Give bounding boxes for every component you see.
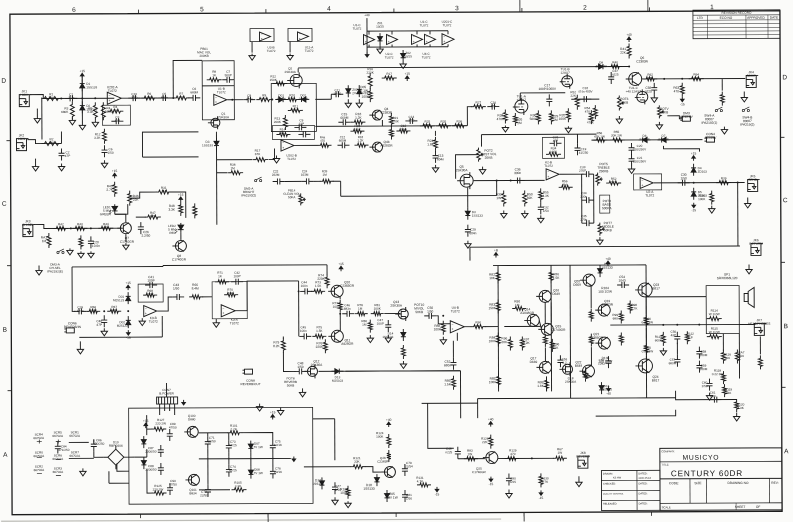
ground below R5 [92, 120, 98, 127]
svg-text:R5222K: R5222K [570, 90, 577, 98]
svg-text:−: − [145, 307, 147, 311]
wire u4b in link [436, 316, 450, 324]
wire psu v h [272, 457, 274, 467]
wire LED2 to Q8 [180, 233, 182, 240]
capacitor C29 604n [465, 225, 471, 237]
wire r79 down [283, 352, 295, 371]
label R12 150K [270, 75, 278, 83]
power -15 r131 [435, 487, 440, 497]
wire u4b to amp [485, 326, 498, 328]
label R50 82K [527, 192, 534, 200]
svg-text:-15: -15 [691, 208, 696, 212]
transistor Q20 D669 [580, 274, 595, 286]
label C86 470/250 [93, 438, 104, 446]
wire y418 row [313, 418, 335, 420]
svg-text:C611/50: C611/50 [710, 391, 716, 399]
fet Q18 2SK30A [559, 362, 572, 376]
svg-text:+15: +15 [178, 193, 184, 197]
capacitor C77 1/50 [332, 482, 338, 494]
ground psu a [256, 404, 262, 412]
label C24 103M [301, 169, 309, 176]
input jack JK3 CH-SEL [22, 219, 35, 236]
wire ac in vertical [108, 471, 110, 483]
svg-text:R4a470: R4a470 [320, 135, 326, 142]
zone tick bottom [651, 512, 653, 516]
ground K3-A [213, 319, 219, 328]
wire reverb loop bottom [79, 336, 162, 338]
label Z05 10V 1W [386, 492, 397, 500]
transistor Q11 A928GR [328, 330, 343, 342]
transistor Q17 D669 [536, 361, 551, 373]
transistor Q8 C1740GR [172, 240, 186, 251]
label R127 220 2W [155, 418, 166, 426]
capacitor C84 471/250 [55, 441, 61, 453]
label R123 100K [340, 487, 348, 495]
resistor R39 1M [320, 179, 334, 183]
node clip box input [271, 99, 273, 101]
resistor R7 33K [173, 92, 189, 100]
label C20 220/250V [633, 144, 647, 152]
svg-text:+15: +15 [691, 151, 697, 155]
resistor R27b 22K [471, 100, 486, 108]
svg-text:DRAWING NO: DRAWING NO [727, 481, 748, 485]
wire TU1-A plate riser [519, 93, 521, 100]
wire opamp riser [368, 31, 370, 47]
svg-text:R1204.3K: R1204.3K [737, 402, 745, 410]
wire x477 drop [477, 399, 479, 418]
label R30 500K [530, 113, 538, 121]
label R14 1K [280, 127, 286, 134]
svg-text:C44100n: C44100n [301, 280, 308, 288]
power -15 r130 [539, 490, 544, 500]
label U1-C TL072 b [420, 20, 429, 28]
label R131 4.7K [416, 476, 424, 484]
speaker SP1 cone [744, 287, 754, 307]
node k3b in [103, 310, 105, 312]
label D3 1SS133 [202, 140, 213, 148]
label R97 8.2K [523, 337, 530, 345]
svg-text:−: − [451, 322, 453, 326]
resistor R130 4.7K [539, 473, 543, 487]
label Q19 C2383R [601, 299, 613, 307]
wire C19 drop [576, 134, 578, 143]
wire bias drop [334, 419, 336, 460]
wire supply rail y264 [163, 264, 327, 267]
svg-text:+: + [641, 183, 643, 187]
wire dm3 link [667, 116, 682, 119]
capacitor C49 n225 [455, 447, 461, 459]
wire box lower-left corner [142, 132, 198, 157]
jack JK6 RETURN [749, 238, 763, 255]
ground below C13 [432, 165, 438, 173]
fet Q13 2SK30A [395, 307, 408, 321]
label R20 100K [559, 113, 567, 121]
svg-text:−: − [641, 178, 643, 182]
pot box POT3 [600, 195, 610, 213]
wire Q7 emitter down [125, 234, 127, 242]
terminal SCR4 66702A [33, 433, 45, 441]
jack JK4 80007 [746, 70, 758, 87]
svg-text:R54470: R54470 [584, 106, 590, 114]
ground JK8 [576, 476, 582, 487]
svg-text:REV:: REV: [771, 481, 778, 485]
power +15 rail mark [404, 72, 410, 81]
zone tick top [648, 7, 650, 11]
label C49 n225 [445, 447, 452, 455]
ground K3-B plus [139, 318, 145, 326]
ground below R3 [69, 117, 75, 125]
ground JK4 [741, 91, 747, 102]
ground below R38s [709, 206, 715, 214]
svg-text:JK2LOW: JK2LOW [18, 133, 25, 141]
svg-text:POTV50KB: POTV50KB [660, 107, 670, 115]
resistor R39s 2.2K [716, 176, 731, 184]
label R56 47K 1W [594, 131, 605, 139]
wire diode clamp vertical [81, 73, 83, 125]
terminal SCR3 66702A [53, 466, 65, 474]
terminal SCR6 66702A [53, 453, 65, 461]
label R112 6.8 [687, 332, 694, 340]
label C87 2200/50 [145, 446, 156, 454]
switch contact ch-sel [57, 249, 64, 254]
label Q25 C1740GR [472, 467, 487, 475]
label TU1-C 12AX7 [626, 86, 642, 94]
resistor RA7b 100 [758, 355, 762, 369]
capacitor C48 1/50 [294, 368, 306, 374]
label C61 1/50 [710, 391, 716, 399]
capacitor C45 100n [299, 333, 311, 339]
capacitor C2 47P [59, 148, 65, 160]
svg-text:R11933K: R11933K [725, 388, 732, 396]
label Q14 A1048GR [520, 307, 535, 315]
label Q4b A928GR [380, 140, 393, 148]
node drv c44 [298, 290, 300, 292]
label SW4-A 80007 IPA2192(1) [701, 114, 717, 125]
svg-text:CHECKED:: CHECKED: [603, 483, 616, 486]
resistor R119 33K [723, 384, 727, 397]
resistor R99 1.8K [545, 377, 549, 391]
svg-text:K3-BTL072: K3-BTL072 [149, 316, 158, 324]
wire bias row [304, 466, 351, 468]
diode D17 1SS133 [319, 477, 324, 489]
node input junction [60, 97, 62, 99]
output node rail [610, 323, 755, 326]
zone tick right [780, 136, 784, 138]
label D18 1SS133 [363, 483, 375, 491]
node ch2 b [90, 227, 92, 229]
wire psu mid row [199, 457, 291, 459]
label Q101 B834 [189, 488, 197, 496]
resistor R92 1.5K [543, 334, 547, 347]
resistor R36 47K [452, 119, 467, 127]
resistor R42 1M [53, 222, 68, 230]
wire fb bottom [676, 391, 737, 400]
ground below Z02 [400, 62, 406, 69]
power -40 chain [365, 52, 369, 57]
svg-text:R671W: R671W [557, 447, 563, 455]
diode D13 M25103 [331, 369, 343, 374]
svg-text:R1314.7K: R1314.7K [416, 476, 424, 484]
svg-text:C771/50: C771/50 [335, 484, 341, 492]
wire spk col2 [738, 334, 740, 379]
node y181 b [510, 179, 512, 181]
label R26 1M [516, 117, 522, 125]
wire opamp riser [447, 31, 449, 47]
resistor R38 470K [503, 110, 507, 124]
ground POT7 [597, 237, 603, 245]
input jack JK2 LOW [16, 133, 28, 150]
resistor R38b 1M [228, 171, 243, 175]
label R106 100 1/2W [599, 356, 613, 364]
label DM3-A BRIGHT IPA2192(2) [241, 187, 256, 198]
svg-text:+B: +B [494, 248, 498, 252]
fold mark top 2 [647, 0, 649, 11]
svg-text:4: 4 [327, 6, 331, 13]
resistor R48 3.3K [179, 202, 183, 216]
resistor R9 8.2K [256, 93, 272, 101]
wire ch1-ch2 link [41, 98, 43, 140]
label R96 1K [553, 342, 559, 350]
svg-text:C541043: C541043 [619, 275, 626, 283]
wire R38 feed [217, 172, 228, 174]
label R21 470K [392, 116, 399, 123]
resistor R126 22K [489, 435, 493, 449]
label C77 1/50 [335, 484, 341, 492]
resistor R120 4.3K [735, 399, 739, 412]
zone tick right [781, 261, 785, 263]
svg-text:TU1-A12AX7: TU1-A12AX7 [516, 94, 526, 102]
label U4-C TL072 [422, 52, 431, 60]
resistor R100 0.22 3W [644, 314, 648, 327]
resistor R93 1M [512, 306, 526, 310]
capacitor C28 104n [74, 305, 86, 314]
power +15 above R45 [112, 169, 118, 178]
label D10 RBPC606 [109, 440, 123, 448]
fet Q12 2SK30A [304, 364, 317, 378]
svg-text:POT3BASS500KA: POT3BASS500KA [602, 199, 612, 210]
svg-text:-15: -15 [126, 336, 131, 340]
node u4b in [442, 315, 444, 317]
svg-text:C: C [783, 197, 788, 204]
capacitor C32 1/50 [538, 202, 544, 214]
node out a [663, 78, 665, 80]
ground bias a [332, 497, 338, 505]
ground below clamp [79, 125, 85, 130]
wire pot2 drop [480, 135, 482, 147]
zone letter B right [784, 323, 788, 330]
zone number 1 top [710, 4, 714, 11]
label R18 1.2K [355, 112, 362, 120]
zone tick left [8, 390, 12, 392]
wire cap col [93, 439, 95, 442]
title block [601, 448, 782, 511]
label R55 4.3K [543, 190, 550, 198]
label C7 500P [225, 70, 232, 78]
wire R31 left [130, 192, 157, 198]
wire mains row [591, 139, 702, 141]
svg-text:REVISION RECORD: REVISION RECORD [721, 11, 752, 15]
capacitor C56 43P [674, 332, 680, 344]
label R119 33K [725, 388, 732, 396]
transistor Q19 C2383R [595, 304, 610, 316]
capacitor C35 270n [582, 220, 594, 226]
svg-text:D: D [782, 74, 787, 81]
resistor R17 67K [253, 158, 268, 162]
capacitor C59 100M [696, 361, 702, 373]
label R54 470 [584, 106, 590, 114]
capacitor C22 222M [273, 178, 285, 184]
wire k2b out [560, 173, 584, 175]
node clamp mid [81, 97, 83, 99]
label R48 3.3K [168, 204, 175, 212]
label C12 660M [339, 135, 347, 142]
resistor R101 2.2K [227, 431, 242, 435]
power +15 reverb drv [338, 262, 344, 271]
wire pb14 drop [340, 181, 342, 196]
label C57 680M [669, 358, 677, 366]
K2-B feedback box [542, 137, 564, 158]
label C71 22/50 [208, 436, 216, 444]
label R70 22K [227, 288, 234, 296]
svg-text:Q101B834: Q101B834 [189, 488, 197, 496]
wire jk8 row [498, 457, 554, 459]
label POTV 50KB [660, 107, 670, 115]
svg-text:K2-BTL072: K2-BTL072 [544, 160, 553, 168]
label C9 33P [299, 118, 305, 126]
potentiometer POT7 [598, 223, 605, 236]
capacitor C54 1043 [617, 282, 629, 288]
ground below JK1 [34, 109, 40, 124]
wire opamp riser [391, 31, 393, 47]
resistor R66 2.2M [86, 305, 100, 313]
ground POTV [656, 122, 662, 130]
label Q15 C1740GR [551, 324, 566, 332]
svg-text:C321/50: C321/50 [543, 205, 549, 213]
label C6 680M [190, 87, 198, 95]
svg-text:C431/50: C431/50 [173, 283, 179, 291]
capacitor C12b 660M [337, 142, 349, 148]
svg-text:R99680: R99680 [612, 313, 618, 321]
node out b [681, 78, 683, 80]
transistor Q10 C2383GR [328, 285, 343, 297]
label RA7 600 [738, 350, 744, 358]
label R121 33K [353, 456, 361, 464]
power -15 below R63 [680, 97, 685, 107]
power +15 above D1 [79, 69, 85, 78]
node k3b clamp [127, 310, 129, 312]
potentiometer POT6 50KB [617, 96, 624, 111]
resistor R34 100K [546, 152, 561, 156]
node send clamp [693, 182, 695, 184]
label Q4 C2383R [380, 107, 392, 115]
op-amp U202-A TL072 [107, 92, 121, 104]
label Q16 D649 [552, 288, 560, 296]
wire k3a out [235, 281, 299, 311]
svg-text:+: + [299, 37, 301, 41]
label POT3 BASS 500KA [602, 199, 612, 210]
zone letter A left [3, 452, 8, 459]
wire xfmr to box [159, 411, 161, 415]
ground U202-B [273, 156, 279, 164]
label R81 100K [374, 303, 382, 311]
label K2-B TL072 [544, 160, 553, 168]
diode D8 1SS133 [595, 61, 607, 70]
svg-text:2000.05.18: 2000.05.18 [638, 477, 651, 480]
connector DM3 AC12.6V [680, 111, 694, 121]
resistor R68 150K [143, 289, 157, 297]
capacitor C53 6.2 [557, 355, 563, 367]
wire fb col [452, 341, 454, 358]
capacitor C80 1/25 [506, 473, 512, 485]
wire main y196 [341, 195, 497, 198]
revision record table [693, 10, 780, 39]
resistor R41 22K [627, 43, 631, 58]
label U4-B TL072 [451, 306, 460, 314]
resistor R131 4.7K [417, 483, 431, 487]
resistor R62 470 [643, 73, 657, 81]
label POT6 50KB [620, 97, 629, 105]
svg-text:+: + [145, 311, 147, 315]
capacitor C73 47/25 [226, 441, 232, 453]
capacitor C12 1/50 [298, 131, 310, 137]
label C72 22/50 [200, 490, 208, 498]
label R39 1M [322, 169, 328, 176]
svg-text:+15: +15 [270, 410, 276, 414]
label R4a 470 [320, 135, 326, 142]
amp out col2 [645, 328, 647, 342]
op-amp U3-C [412, 34, 423, 44]
U2-A input box [634, 174, 662, 190]
zone letter D right [782, 74, 787, 81]
label C13 604n [437, 154, 444, 162]
label U202-B TL072 [286, 153, 297, 161]
wire ac in to box [109, 482, 129, 484]
resistor R125 220 2W [152, 491, 167, 495]
capacitor C42 100P [231, 279, 243, 285]
label C41 100P [147, 275, 154, 283]
diode D16 1SS133 [599, 382, 604, 394]
power psu mid arrow [292, 456, 296, 461]
zone tick top [137, 10, 139, 14]
wire U1-B output [227, 99, 243, 101]
label D15 1SS133 [601, 262, 613, 270]
label R85 100K [489, 377, 497, 385]
capacitor C30 1/50 [678, 180, 690, 186]
label D16 1SS133 [601, 384, 612, 391]
label C43 1/50 [173, 283, 179, 291]
svg-text:R21470K: R21470K [392, 116, 399, 123]
svg-text:C1668n: C1668n [490, 101, 496, 109]
label C37 n225 [612, 69, 619, 77]
amp wire a [504, 325, 540, 327]
svg-text:C37n225: C37n225 [612, 69, 619, 77]
resistor R56b 47K 1W [593, 138, 607, 142]
wire bridge to box bottom [117, 463, 129, 471]
svg-text:B: B [3, 327, 7, 334]
capacitor C9 33P [294, 124, 306, 130]
amp box bottom [647, 397, 676, 399]
svg-text:R8210K: R8210K [489, 273, 496, 281]
wire q5 source row [474, 179, 545, 181]
svg-text:C601/50: C601/50 [702, 381, 708, 389]
capacitor C20 10.0n [88, 236, 94, 248]
resistor R114 [707, 317, 722, 321]
jack JK8 REVERB [576, 451, 590, 468]
capacitor C14 1/50 [405, 115, 417, 124]
wire psu v a [207, 449, 209, 457]
op-amp U4-C [425, 34, 436, 44]
ground below Z03 [345, 99, 351, 108]
